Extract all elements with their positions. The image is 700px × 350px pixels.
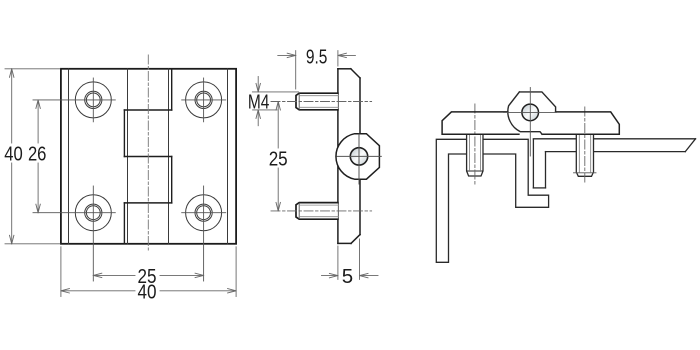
hole bottom-right counterbore <box>195 204 212 221</box>
plate top edge <box>338 68 351 70</box>
dimension 9.5: extension lines <box>295 51 297 89</box>
knuckle column right line <box>168 69 170 244</box>
profile gap right line <box>532 139 534 188</box>
stud 1 mounted <box>467 134 483 176</box>
stud top chamfer line <box>298 94 300 109</box>
knuckle column left line <box>127 69 129 244</box>
hole top-right outer <box>186 82 222 118</box>
svg-text:40: 40 <box>138 281 157 304</box>
knuckle joint line 3 <box>124 202 171 204</box>
knuckle segment 4 left edge <box>123 203 125 244</box>
dimension M4: arrows outside <box>257 77 259 92</box>
right leaf fold line <box>227 69 229 244</box>
stud 2 centerline <box>584 107 586 183</box>
dimension M4: extension lines <box>252 91 298 93</box>
plate bottom-right chamfer <box>351 235 360 244</box>
left leaf fold line <box>68 69 70 244</box>
knuckle segment 3 right edge <box>171 157 173 203</box>
hole bottom-right outer <box>186 195 222 231</box>
hinge body outline front view <box>61 69 236 244</box>
plate right edge <box>359 78 361 235</box>
pin hole mounted view <box>522 104 539 121</box>
hole top-right counterbore <box>195 91 212 108</box>
panel cut tip <box>685 139 695 152</box>
svg-text:5: 5 <box>342 265 353 288</box>
svg-text:26: 26 <box>28 143 47 166</box>
svg-text:M4: M4 <box>248 90 270 113</box>
hole bottom-left counterbore <box>85 204 102 221</box>
dimension 40 bottom: extension lines <box>60 247 62 297</box>
dimension 40 left: dimension line <box>11 69 13 143</box>
dimension 25 bottom: dimension line <box>93 274 135 276</box>
pin hole side view <box>350 148 367 165</box>
channel right line <box>545 152 547 188</box>
top leaf bar outline <box>442 112 519 134</box>
dimension 5: arrows outside <box>322 275 338 277</box>
pin crosshair mounted <box>504 111 557 113</box>
panel top edge <box>533 138 695 140</box>
left profile outer edge <box>436 139 548 262</box>
pin hole crosshair <box>337 155 381 157</box>
knuckle lug side view <box>336 134 379 180</box>
dimension 40 left: extension lines <box>5 68 60 70</box>
stud bottom chamfer line <box>298 203 300 218</box>
hole top-right crosshair <box>182 99 226 101</box>
hole top-left outer <box>75 82 111 118</box>
stud top centerline <box>271 101 372 103</box>
panel bottom edge <box>546 151 686 153</box>
stud bottom (M4) body <box>296 203 338 220</box>
hole bottom-left crosshair <box>33 212 115 214</box>
knuckle segment 1 right edge <box>171 69 173 110</box>
dimension 26 left: dimension line <box>37 100 39 143</box>
hole top-left counterbore <box>85 91 102 108</box>
hole top-left crosshair <box>33 99 115 101</box>
hole bottom-left outer <box>75 195 111 231</box>
plate bottom edge <box>338 242 351 244</box>
plate left edge <box>337 69 339 244</box>
stud 1 centerline <box>474 104 476 186</box>
knuckle joint line 1 <box>124 109 171 111</box>
stud bottom centerline <box>271 210 372 212</box>
knuckle segment 2 left edge <box>123 110 125 157</box>
svg-text:40: 40 <box>4 143 23 166</box>
dimension 40 bottom: dimension line <box>61 290 135 292</box>
svg-text:25: 25 <box>269 147 288 170</box>
knuckle lug mounted view <box>508 92 556 134</box>
dimension 9.5: arrows outside <box>278 54 296 56</box>
stud bottom thread lines <box>299 204 338 206</box>
hinge axis centerline front <box>147 55 149 250</box>
channel bottom <box>533 187 545 189</box>
stud 2 mounted <box>576 134 593 176</box>
plate top-right chamfer <box>351 69 360 78</box>
knuckle joint line 2 <box>124 156 171 158</box>
svg-text:9.5: 9.5 <box>306 45 328 68</box>
dimension 5: extension lines <box>337 246 339 279</box>
stud top (M4) body <box>296 93 338 110</box>
stud top thread lines <box>299 95 338 97</box>
hole bottom-right crosshair <box>182 212 226 214</box>
dimension 25 middle: dimension line <box>277 102 279 149</box>
